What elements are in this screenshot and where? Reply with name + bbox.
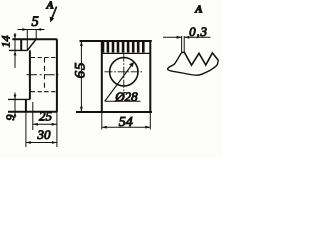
front view: serration strip bottom line: [102, 52, 151, 54]
left view: step line at y=50.4 with ext tail: [9, 49, 28, 51]
svg-text:25: 25: [39, 108, 53, 123]
left view: lower-left edge: [25, 99, 27, 111]
front view: leader line for diameter: [105, 62, 134, 101]
left view: right edge: [56, 39, 58, 112]
left view: dimension 25 line inside arrows: [33, 123, 57, 126]
svg-text:Ø28: Ø28: [114, 89, 138, 104]
detail: serration tooth profile: [181, 52, 218, 65]
left view: lower step line at y=99.4 with ext tail: [8, 98, 30, 100]
front view: leader shelf under text: [105, 100, 141, 102]
left view: dimension 5 line with outside arrows: [18, 28, 45, 31]
front view: dimension 65 line inside arrows: [80, 41, 83, 112]
detail: freehand break outline: [168, 53, 219, 75]
left view: upper left edge: [20, 39, 22, 50]
left view: extension right (shared 25/30): [56, 112, 58, 147]
front view: hole circle: [110, 58, 138, 86]
svg-text:A: A: [194, 4, 202, 16]
svg-text:A: A: [46, 0, 54, 12]
left view: hidden hole bottom line: [31, 91, 57, 93]
front view: right edge: [149, 41, 151, 112]
front view: 54 extension right: [149, 112, 151, 129]
left view: dimension 9 line with outside arrows: [14, 93, 17, 119]
view-direction arrow: [50, 7, 57, 23]
left view: dimension 14 line with outside arrows: [14, 33, 17, 68]
front view: bottom edge with left ext tail: [76, 111, 152, 113]
svg-text:5: 5: [32, 14, 39, 30]
svg-text:14: 14: [0, 36, 13, 48]
front view: vertical centerline: [123, 54, 125, 94]
left view: bottom edge with ext tail: [8, 111, 57, 113]
left view: top edge: [12, 38, 57, 40]
left view: extension for 25: [32, 102, 34, 130]
front view: top edge with left ext tail: [80, 40, 152, 42]
left view: dimension 30 line inside arrows: [26, 141, 57, 144]
detail: extension lines 0,3: [182, 36, 185, 52]
left view: extension line for 5 (left, inner edge): [26, 30, 28, 51]
left view: inclined serration face: [27, 39, 36, 50]
left view: hole centerline: [27, 74, 59, 76]
left view: extension line for 5 (right): [35, 30, 37, 40]
front view: horizontal centerline: [105, 71, 143, 73]
front view: left edge: [101, 41, 103, 112]
left view: hidden hole depth line (vertical dashed): [44, 58, 46, 93]
svg-text:30: 30: [37, 127, 52, 142]
left view: extension for 30 (left): [25, 112, 27, 147]
left view: hidden hole top line: [31, 57, 57, 59]
front view: 54 extension left: [101, 112, 103, 129]
detail: dimension 0,3 line with outside arrows: [163, 36, 211, 39]
left view: main left edge: [29, 50, 31, 99]
svg-text:65: 65: [73, 62, 89, 79]
front view: serration hatch bars: [102, 41, 145, 52]
front view: dimension 54 line inside arrows: [102, 126, 151, 129]
